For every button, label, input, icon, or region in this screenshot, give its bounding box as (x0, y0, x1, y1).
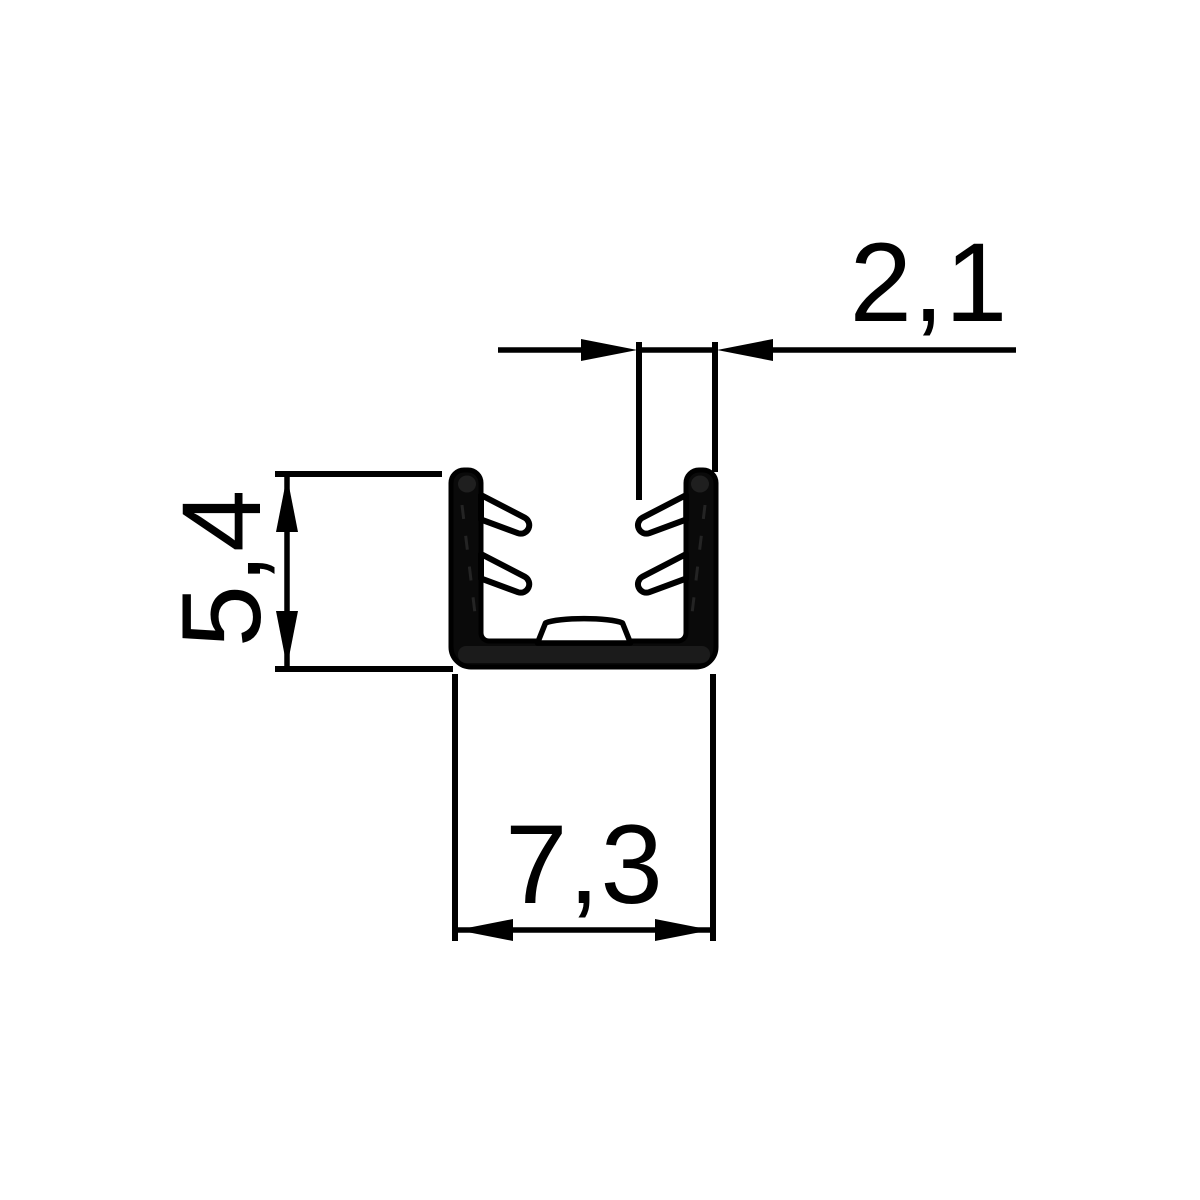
right wall dashed hidden line (691, 505, 705, 622)
left wall dashed hidden line (462, 505, 476, 622)
dimension 2,1 : inner extension line (636, 342, 642, 500)
left wall cap tint (458, 476, 476, 493)
dimension 2,1 : connector line between extension lines (639, 347, 715, 353)
right wall cap tint (691, 476, 709, 493)
dimension 2,1 : left leader line (498, 347, 585, 353)
dimension 5,4 : top extension line (275, 471, 442, 477)
dimension 7,3 : left extension line (452, 674, 458, 941)
right wall lower fin (638, 554, 686, 593)
dimension 7,3 : right arrowhead (655, 919, 711, 941)
left wall lower fin (481, 554, 529, 593)
svg-text:5,4: 5,4 (159, 489, 284, 648)
dimension 2,1 : right arrowhead (717, 339, 773, 361)
dimension 5,4 : dimension line (284, 476, 290, 667)
svg-text:2,1: 2,1 (850, 220, 1009, 345)
dimension 7,3 : right extension line (710, 674, 716, 941)
dimension 5,4 : down arrowhead (276, 611, 298, 667)
dimension 7,3 : left arrowhead (457, 919, 513, 941)
svg-text:7,3: 7,3 (505, 802, 664, 927)
dimension 2,1 : outer extension line (712, 342, 718, 472)
dimension 5,4 : bottom extension line (275, 666, 453, 672)
left wall upper fin (481, 495, 529, 534)
bottom wall tint band (458, 646, 710, 663)
dimension 5,4 : up arrowhead (276, 476, 298, 532)
bottom inner bump (538, 619, 631, 643)
profile U-channel body (451, 470, 716, 667)
dimension 2,1 : left arrowhead (581, 339, 637, 361)
right wall upper fin (638, 495, 686, 534)
dimension 2,1 : right leader line (769, 347, 1016, 353)
dimension 7,3 : dimension line (458, 927, 710, 933)
